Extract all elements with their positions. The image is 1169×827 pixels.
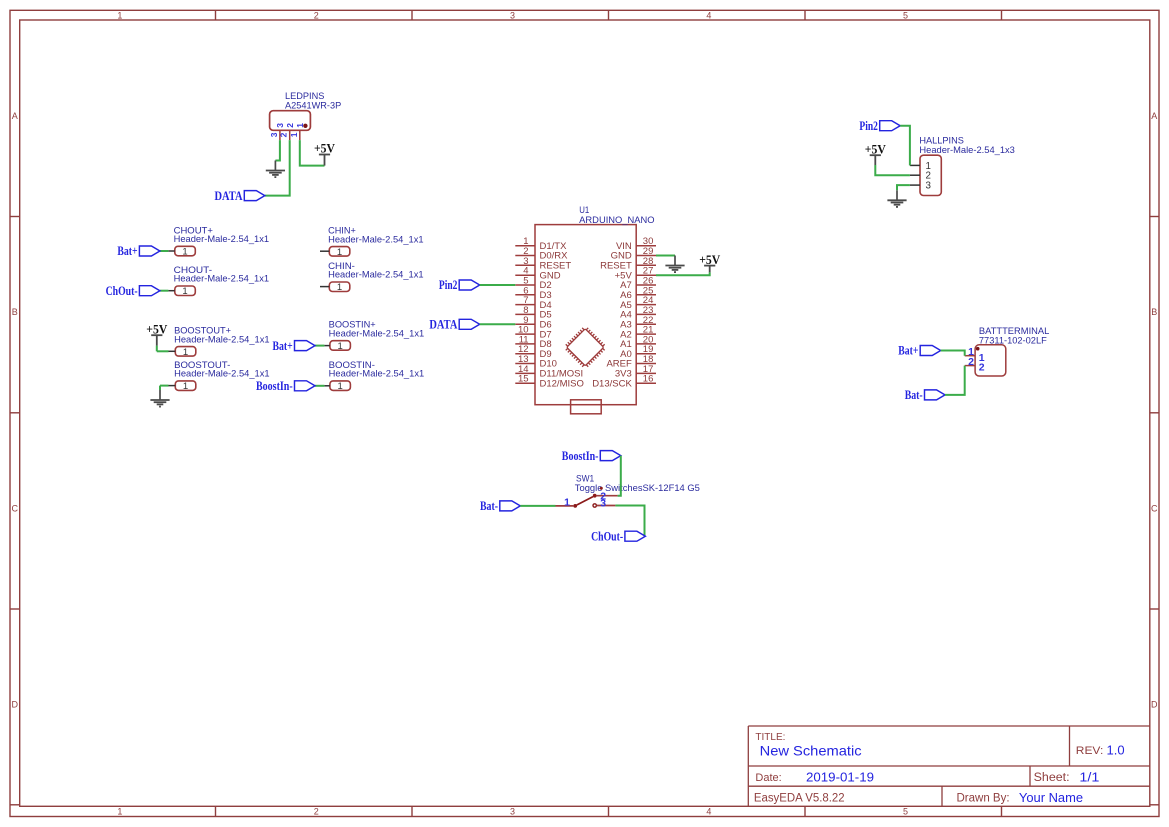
svg-text:+5V: +5V [314,142,335,156]
svg-text:Header-Male-2.54_1x1: Header-Male-2.54_1x1 [174,234,270,244]
svg-text:Header-Male-2.54_1x1: Header-Male-2.54_1x1 [329,328,425,338]
svg-text:ChOut-: ChOut- [106,284,138,298]
svg-text:C: C [12,503,19,513]
svg-text:A: A [1151,111,1157,121]
svg-text:77311-102-02LF: 77311-102-02LF [979,336,1047,346]
svg-text:3: 3 [510,10,515,20]
svg-text:Drawn By:: Drawn By: [957,793,1010,805]
svg-text:1: 1 [183,347,188,358]
svg-text:TITLE:: TITLE: [755,732,785,743]
svg-text:HALLPINS: HALLPINS [919,136,964,146]
svg-text:1: 1 [117,10,122,20]
svg-text:Pin2: Pin2 [859,119,878,133]
svg-text:16: 16 [643,374,654,385]
svg-text:DATA: DATA [429,318,457,332]
svg-text:3: 3 [926,181,932,192]
svg-text:1: 1 [337,247,342,258]
svg-text:2: 2 [968,356,974,368]
svg-text:4: 4 [706,807,711,817]
svg-text:Date:: Date: [755,772,781,784]
svg-text:REV:: REV: [1076,745,1104,757]
svg-text:ARDUINO_NANO: ARDUINO_NANO [579,215,654,225]
svg-text:5: 5 [903,10,908,20]
svg-text:Header-Male-2.54_1x1: Header-Male-2.54_1x1 [174,274,270,284]
svg-text:Bat+: Bat+ [273,339,293,353]
svg-text:3: 3 [269,132,279,137]
svg-text:1: 1 [182,247,187,258]
svg-text:ChOut-: ChOut- [591,529,623,543]
svg-text:DATA: DATA [215,189,243,203]
svg-text:Header-Male-2.54_1x1: Header-Male-2.54_1x1 [174,369,270,379]
svg-text:D: D [1151,699,1158,709]
svg-text:A: A [12,111,18,121]
svg-text:4: 4 [706,10,711,20]
svg-text:BoostIn-: BoostIn- [562,449,599,463]
svg-text:1: 1 [337,341,342,352]
svg-text:BATTTERMINAL: BATTTERMINAL [979,326,1050,336]
svg-text:D13/SCK: D13/SCK [592,378,632,389]
svg-text:LEDPINS: LEDPINS [285,91,324,101]
svg-text:+5V: +5V [865,142,886,156]
svg-text:1.0: 1.0 [1107,743,1125,758]
svg-text:1/1: 1/1 [1079,769,1099,784]
svg-text:New Schematic: New Schematic [760,743,862,759]
svg-text:Header-Male-2.54_1x1: Header-Male-2.54_1x1 [328,270,424,280]
svg-text:Toggle SwitchesSK-12F14 G5: Toggle SwitchesSK-12F14 G5 [575,483,700,493]
svg-text:SW1: SW1 [576,473,594,483]
svg-text:D12/MISO: D12/MISO [540,378,584,389]
svg-text:Bat+: Bat+ [117,244,137,258]
svg-text:3: 3 [510,807,515,817]
svg-text:15: 15 [518,374,529,385]
svg-text:1: 1 [183,381,188,392]
svg-text:EasyEDA V5.8.22: EasyEDA V5.8.22 [754,793,845,805]
svg-text:2: 2 [314,10,319,20]
svg-text:3: 3 [275,123,285,128]
svg-text:2: 2 [285,123,295,128]
svg-text:Bat-: Bat- [480,499,498,513]
svg-text:Bat+: Bat+ [898,344,918,358]
svg-text:1: 1 [182,286,187,297]
svg-text:1: 1 [337,381,342,392]
svg-text:1: 1 [337,282,342,293]
svg-text:D: D [12,699,19,709]
svg-text:B: B [1151,307,1157,317]
svg-text:1: 1 [564,497,570,509]
svg-text:Sheet:: Sheet: [1034,772,1070,784]
svg-text:1: 1 [117,807,122,817]
svg-text:Header-Male-2.54_1x1: Header-Male-2.54_1x1 [329,369,425,379]
svg-text:BoostIn-: BoostIn- [256,379,293,393]
svg-text:Bat-: Bat- [905,388,923,402]
svg-text:Header-Male-2.54_1x1: Header-Male-2.54_1x1 [328,234,424,244]
svg-text:2: 2 [979,361,985,373]
svg-text:Your Name: Your Name [1019,790,1083,805]
svg-text:Header-Male-2.54_1x3: Header-Male-2.54_1x3 [919,145,1015,155]
svg-text:A2541WR-3P: A2541WR-3P [285,101,341,111]
svg-text:2: 2 [279,132,289,137]
svg-text:5: 5 [903,807,908,817]
svg-text:3: 3 [600,498,606,510]
svg-text:C: C [1151,503,1158,513]
svg-text:Header-Male-2.54_1x1: Header-Male-2.54_1x1 [174,334,270,344]
svg-text:2: 2 [314,807,319,817]
svg-text:B: B [12,307,18,317]
svg-text:U1: U1 [579,205,589,215]
svg-text:1: 1 [289,132,299,137]
svg-text:+5V: +5V [699,253,720,267]
svg-text:Pin2: Pin2 [439,278,458,292]
svg-text:2019-01-19: 2019-01-19 [806,769,874,784]
svg-text:+5V: +5V [146,322,167,336]
